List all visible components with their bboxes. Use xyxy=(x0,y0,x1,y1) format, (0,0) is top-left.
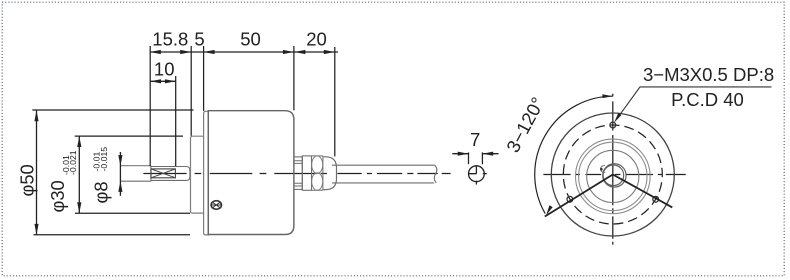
svg-text:φ8: φ8 xyxy=(91,181,112,203)
svg-text:50: 50 xyxy=(240,29,261,50)
svg-text:φ50: φ50 xyxy=(16,164,37,196)
svg-text:15.8: 15.8 xyxy=(152,29,188,50)
svg-text:10: 10 xyxy=(154,58,175,79)
svg-text:5: 5 xyxy=(194,29,204,50)
svg-text:20: 20 xyxy=(306,29,327,50)
svg-text:φ30: φ30 xyxy=(47,180,68,212)
svg-text:7: 7 xyxy=(470,129,480,150)
svg-text:3−120°: 3−120° xyxy=(502,94,548,156)
svg-text:-0.015: -0.015 xyxy=(99,147,109,172)
svg-text:P.C.D 40: P.C.D 40 xyxy=(671,89,744,110)
svg-text:-0.021: -0.021 xyxy=(68,150,78,175)
svg-text:3−M3X0.5 DP:8: 3−M3X0.5 DP:8 xyxy=(643,64,774,85)
